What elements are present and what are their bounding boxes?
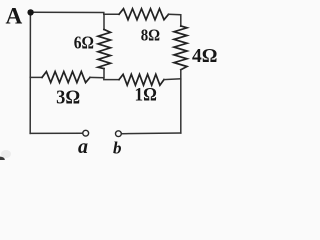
svg-text:A: A — [6, 4, 23, 30]
wire middle rail at junction with 6-ohm — [90, 77, 119, 79]
terminal a (open circle) — [83, 130, 89, 136]
wire bottom rail left (to terminal a) — [30, 132, 83, 134]
svg-text:b: b — [113, 139, 122, 158]
wire 6-ohm top lead from top rail — [103, 14, 105, 29]
wire 6-ohm bottom lead to middle rail — [103, 68, 105, 77]
stray ink mark (scan artifact) — [0, 157, 5, 163]
resistor R=4ohm (right vertical) — [174, 26, 187, 70]
resistor R=6ohm (middle vertical) — [98, 29, 111, 68]
resistor R=1ohm (middle right horizontal) — [119, 74, 164, 85]
svg-text:a: a — [78, 136, 88, 158]
svg-text:1Ω: 1Ω — [135, 86, 157, 106]
svg-text:8Ω: 8Ω — [141, 26, 160, 45]
wire right rail below 4-ohm down to bottom-right corner — [180, 70, 182, 133]
wire left rail (node A down to bottom-left corner) — [29, 12, 31, 133]
svg-text:3Ω: 3Ω — [56, 87, 80, 109]
wire top rail left (node A to 6-ohm junction) — [30, 12, 119, 14]
wire middle rail left lead — [30, 76, 42, 78]
node A junction dot — [27, 9, 33, 15]
wire middle rail right lead to right rail — [164, 78, 181, 81]
svg-text:6Ω: 6Ω — [74, 33, 94, 53]
wire bottom rail right (terminal b to bottom-right corner) — [121, 132, 181, 135]
resistor R=3ohm (middle left horizontal) — [42, 72, 90, 83]
terminal b (open circle) — [116, 131, 122, 137]
svg-text:4Ω: 4Ω — [192, 45, 218, 67]
resistor R=8ohm (top right horizontal) — [119, 9, 169, 20]
wire top rail right to top-right corner — [169, 14, 181, 26]
